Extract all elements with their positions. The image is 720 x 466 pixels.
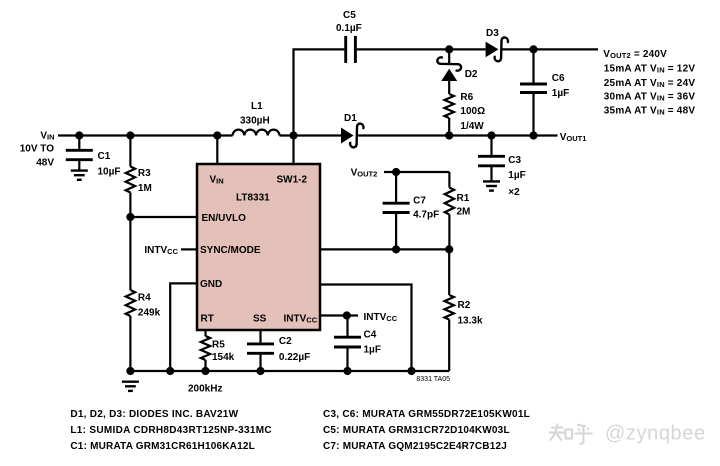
svg-text:VOUT2: VOUT2 — [351, 168, 378, 179]
capacitor C3 — [478, 136, 526, 199]
svg-text:C1: MURATA GRM31CR61H106KA12L: C1: MURATA GRM31CR61H106KA12L — [70, 441, 255, 452]
node EN/UVLO junction — [126, 213, 134, 221]
resistor R6 — [445, 81, 486, 136]
node R1/R2 on FBX — [445, 245, 453, 253]
svg-text:48V: 48V — [36, 157, 54, 168]
node R6 bottom on VOUT1 rail — [445, 131, 453, 139]
svg-text:@zynqbee: @zynqbee — [605, 423, 706, 445]
svg-text:35mA AT VIN = 48V: 35mA AT VIN = 48V — [604, 105, 696, 116]
diode D2 — [437, 49, 478, 81]
label notes left column — [70, 409, 272, 452]
wire INTVCC pin stub — [320, 314, 358, 316]
svg-text:2M: 2M — [457, 206, 471, 217]
node C3 on VOUT1 rail — [487, 131, 495, 139]
node SW junction — [289, 131, 297, 139]
svg-text:C2: C2 — [279, 336, 292, 347]
svg-text:15mA AT VIN = 12V: 15mA AT VIN = 12V — [604, 64, 696, 75]
capacitor C6 — [520, 49, 569, 135]
svg-text:INTVCC: INTVCC — [284, 314, 318, 325]
wire: VOUT1 rail from D1 to label — [357, 134, 558, 136]
capacitor C5 — [336, 10, 362, 63]
capacitor C7 — [383, 172, 440, 249]
label VIN source — [20, 131, 55, 169]
svg-text:C5: MURATA GRM31CR72D104KW03L: C5: MURATA GRM31CR72D104KW03L — [323, 425, 510, 436]
wire EN/UVLO to IC — [130, 216, 197, 218]
node C2 at ground rail — [256, 367, 264, 375]
label INTVCC at SYNC/MODE — [144, 245, 178, 256]
node GND wire at ground rail — [166, 367, 174, 375]
svg-text:10V TO: 10V TO — [20, 144, 54, 155]
node VIN junction R3 — [126, 131, 134, 139]
op-amp U1 LT8331 IC body — [197, 164, 320, 330]
svg-text:GND: GND — [200, 279, 222, 290]
node BIAS at ground rail — [407, 367, 415, 375]
resistor R1 — [445, 172, 471, 249]
svg-text:1/4W: 1/4W — [460, 121, 484, 132]
svg-text:C3, C6: MURATA GRM55DR72E105KW: C3, C6: MURATA GRM55DR72E105KW01L — [323, 409, 530, 420]
label 200kHz — [188, 384, 222, 395]
svg-text:200kHz: 200kHz — [188, 384, 222, 395]
svg-text:×2: ×2 — [508, 187, 520, 198]
svg-text:4.7pF: 4.7pF — [413, 210, 439, 221]
node C4 at ground rail — [343, 367, 351, 375]
resistor R5 — [201, 330, 235, 371]
label INTVCC right — [364, 312, 398, 323]
svg-text:R5: R5 — [212, 339, 225, 350]
wire BIAS routing — [320, 285, 412, 372]
svg-text:VIN: VIN — [40, 131, 54, 142]
svg-text:25mA AT VIN = 24V: 25mA AT VIN = 24V — [604, 78, 696, 89]
diode D3 — [486, 28, 508, 61]
svg-text:R2: R2 — [458, 300, 471, 311]
wire: top rail C5 to D3 — [357, 48, 486, 50]
svg-text:C7: C7 — [413, 195, 426, 206]
label 8331 TA05 — [416, 376, 450, 383]
watermark zhihu @zynqbee — [549, 423, 706, 445]
svg-text:VOUT1: VOUT1 — [560, 132, 587, 143]
svg-text:SW1-2: SW1-2 — [277, 175, 308, 186]
svg-text:R6: R6 — [460, 92, 473, 103]
label notes right column — [323, 409, 530, 452]
svg-text:0.22µF: 0.22µF — [279, 352, 310, 363]
node C6 top — [529, 45, 537, 53]
svg-text:LT8331: LT8331 — [236, 193, 270, 204]
svg-text:10µF: 10µF — [98, 167, 121, 178]
node R5 at ground rail — [201, 367, 209, 375]
ground symbol main — [122, 382, 139, 391]
svg-text:D2: D2 — [465, 69, 478, 80]
resistor R4 — [126, 217, 161, 371]
svg-text:R1: R1 — [457, 193, 470, 204]
svg-text:R3: R3 — [138, 168, 151, 179]
node VIN junction C1 — [75, 131, 83, 139]
ground under C3 — [483, 181, 500, 190]
svg-text:INTVCC: INTVCC — [144, 245, 178, 256]
capacitor C1 — [66, 136, 121, 178]
wire ground rail — [130, 370, 449, 372]
wire VOUT2 node to R1 corner — [384, 171, 449, 173]
svg-text:330µH: 330µH — [240, 116, 270, 127]
svg-text:L1: SUMIDA CDRH8D43RT125NP-331: L1: SUMIDA CDRH8D43RT125NP-331MC — [70, 425, 272, 436]
wire riser SW node to C5 rail — [294, 49, 345, 135]
svg-text:D3: D3 — [486, 28, 499, 39]
wire SYNC/MODE stub — [181, 248, 197, 250]
svg-text:R4: R4 — [138, 293, 151, 304]
label VOUT2 node — [351, 168, 378, 179]
svg-text:30mA AT VIN = 36V: 30mA AT VIN = 36V — [604, 91, 696, 102]
diode D1 — [341, 113, 363, 147]
svg-text:D1, D2, D3: DIODES INC. BAV21W: D1, D2, D3: DIODES INC. BAV21W — [70, 409, 238, 420]
svg-text:C7: MURATA GQM2195C2E4R7CB12J: C7: MURATA GQM2195C2E4R7CB12J — [323, 441, 507, 452]
svg-text:1µF: 1µF — [552, 88, 569, 99]
ground under C1 — [71, 171, 88, 180]
wire FBX to R1/R2 — [320, 248, 449, 250]
svg-text:C5: C5 — [343, 10, 356, 21]
resistor R3 — [126, 136, 152, 218]
svg-text:VOUT2 = 240V: VOUT2 = 240V — [603, 49, 667, 60]
node VOUT2 — [392, 168, 400, 176]
svg-text:1µF: 1µF — [364, 345, 381, 356]
node D2 top on rail — [445, 45, 453, 53]
svg-text:1µF: 1µF — [508, 170, 525, 181]
svg-text:EN/UVLO: EN/UVLO — [202, 213, 247, 224]
svg-text:0.1µF: 0.1µF — [336, 23, 362, 34]
node C7 bottom on FBX — [392, 245, 400, 253]
node R4 at ground rail — [126, 367, 134, 375]
svg-text:D1: D1 — [344, 113, 357, 124]
svg-text:C3: C3 — [508, 155, 521, 166]
svg-text:RT: RT — [201, 314, 214, 325]
node C6 bottom on VOUT1 rail — [529, 131, 537, 139]
label VOUT2 = 240V annotation block — [603, 49, 695, 117]
svg-text:249k: 249k — [138, 307, 161, 318]
svg-text:8331 TA05: 8331 TA05 — [416, 376, 450, 383]
wire VIN pin stub — [216, 136, 218, 165]
svg-text:INTVCC: INTVCC — [364, 312, 398, 323]
svg-text:SS: SS — [253, 314, 267, 325]
svg-text:C6: C6 — [552, 73, 565, 84]
wire: top rail D3 to VOUT2 label — [501, 48, 598, 50]
svg-text:L1: L1 — [251, 101, 263, 112]
svg-text:C1: C1 — [98, 151, 111, 162]
node INTVCC junction C4 — [343, 311, 351, 319]
svg-text:100Ω: 100Ω — [460, 106, 485, 117]
svg-text:154k: 154k — [212, 352, 235, 363]
label VOUT1 — [560, 132, 587, 143]
wire SW1-2 pin stub — [292, 136, 294, 165]
node VIN pin junction — [213, 131, 221, 139]
svg-text:1M: 1M — [138, 183, 152, 194]
wire: rail from L1 to D1 anode — [280, 134, 342, 136]
inductor L1 — [233, 101, 280, 136]
capacitor C4 — [334, 316, 381, 372]
svg-text:SYNC/MODE: SYNC/MODE — [200, 245, 261, 256]
capacitor C2 — [247, 330, 310, 371]
svg-text:VIN: VIN — [210, 175, 224, 186]
wire: VIN input rail left segment — [58, 134, 233, 136]
resistor R2 — [445, 249, 483, 371]
svg-text:13.3k: 13.3k — [458, 315, 483, 326]
svg-text:C4: C4 — [364, 330, 377, 341]
wire GND pin routing — [170, 283, 197, 371]
